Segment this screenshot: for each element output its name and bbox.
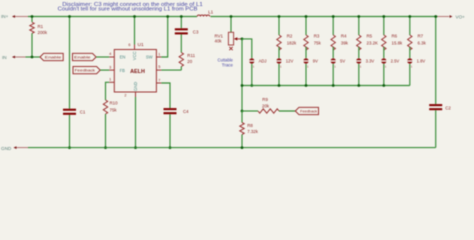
svg-text:SW: SW — [146, 55, 153, 60]
solder jumper JP1 ADJ — [249, 58, 267, 68]
svg-text:GND: GND — [133, 82, 138, 91]
resistor R6 — [382, 17, 403, 59]
wire VCC pin to rail — [134, 17, 136, 45]
svg-text:2.5V: 2.5V — [391, 58, 400, 63]
resistor R7 — [408, 17, 427, 59]
resistor R8 — [240, 111, 259, 148]
junction dot IN/R1 — [31, 56, 34, 59]
wire top rail right of L1 — [211, 16, 438, 18]
svg-text:Enable: Enable — [45, 55, 63, 60]
wire pin1 to R10 — [106, 82, 110, 100]
global label Feedback (to FB pin) — [73, 67, 100, 74]
svg-text:VCC: VCC — [132, 51, 137, 60]
svg-text:R1: R1 — [38, 24, 44, 29]
solder jumper JP5 3.3V — [356, 58, 375, 68]
resistor R11 — [179, 53, 195, 71]
wire C1 branch vertical — [69, 17, 71, 109]
junction dot SW rail — [166, 15, 169, 18]
svg-text:12V: 12V — [286, 58, 294, 63]
solder jumper JP3 9V — [303, 58, 318, 68]
junction dot VCC rail — [133, 15, 136, 18]
svg-text:4: 4 — [109, 52, 111, 56]
global label Feedback (at R9) — [295, 107, 318, 114]
inductor L1 — [197, 9, 213, 16]
wire C2 branch — [435, 17, 437, 105]
svg-text:75k: 75k — [110, 108, 118, 113]
solder jumper JP6 2.5V — [381, 58, 400, 68]
svg-text:Enable: Enable — [74, 55, 92, 60]
wire SW pin riser — [161, 17, 167, 58]
svg-text:R5: R5 — [367, 33, 373, 38]
svg-text:39k: 39k — [341, 41, 349, 46]
svg-text:3.3V: 3.3V — [366, 58, 375, 63]
svg-text:6.3k: 6.3k — [418, 41, 427, 46]
wire C3 to R11 — [180, 34, 182, 52]
junction dot RV1 rail — [230, 15, 233, 18]
svg-text:20: 20 — [187, 59, 192, 64]
solder jumper JP2 12V — [276, 58, 294, 68]
note Cuttable Trace — [218, 58, 234, 68]
svg-text:IN+: IN+ — [1, 14, 9, 19]
junction dot bus left — [241, 84, 244, 87]
resistor R10 — [103, 100, 118, 148]
svg-text:Couldn't tell for sure without: Couldn't tell for sure without unsolderi… — [58, 7, 199, 13]
svg-text:R9: R9 — [262, 97, 268, 102]
op-amp U1 AELH regulator — [109, 42, 161, 98]
svg-text:IN: IN — [2, 55, 7, 60]
capacitor C3 — [175, 28, 199, 34]
svg-text:200k: 200k — [38, 30, 48, 35]
svg-text:ADJ: ADJ — [259, 58, 267, 63]
capacitor C4 — [164, 108, 190, 114]
junction dot R10 bottom — [104, 146, 107, 149]
resistor R1 — [30, 17, 48, 58]
svg-text:R6: R6 — [392, 33, 398, 38]
wire wiper to ADJ column — [242, 39, 252, 58]
junction dot GND bottom — [134, 146, 137, 149]
svg-text:C4: C4 — [183, 109, 189, 114]
svg-text:R8: R8 — [247, 123, 253, 128]
svg-text:182k: 182k — [287, 41, 297, 46]
junction dot R8 bottom — [241, 146, 244, 149]
resistor R2 — [277, 17, 297, 59]
resistor R9 — [242, 97, 295, 113]
svg-text:3: 3 — [109, 65, 111, 69]
svg-text:R11: R11 — [187, 53, 195, 58]
wire wiper node down — [241, 39, 243, 111]
wire IN to Enable label — [26, 56, 41, 58]
resistor R4 — [331, 17, 349, 59]
svg-text:5V: 5V — [340, 58, 345, 63]
wire Feedback to FB pin — [100, 69, 109, 71]
svg-text:VO+: VO+ — [456, 14, 466, 19]
svg-text:2: 2 — [124, 94, 126, 98]
wire GND pin to bottom rail — [135, 97, 137, 148]
svg-text:C2: C2 — [445, 105, 451, 110]
wire C3 top — [180, 17, 182, 29]
svg-text:Trace: Trace — [222, 63, 234, 68]
capacitor C2 — [429, 104, 451, 110]
svg-text:R3: R3 — [314, 33, 320, 38]
junction dot R8/R9 node — [241, 110, 244, 113]
solder jumper JP4 5V — [330, 58, 345, 68]
svg-text:9V: 9V — [313, 58, 318, 63]
svg-text:6: 6 — [128, 43, 130, 47]
GND hierarchical label — [1, 146, 28, 151]
svg-text:R2: R2 — [287, 33, 293, 38]
svg-text:U1: U1 — [138, 42, 144, 48]
junction dot JP1 bus — [250, 84, 253, 87]
resistor R5 — [357, 17, 378, 59]
capacitor C1 — [63, 109, 86, 115]
global label Enable (left) — [40, 53, 63, 60]
svg-text:40k: 40k — [215, 38, 223, 43]
wire top rail left of L1 — [28, 16, 197, 18]
wire jumper bus — [242, 85, 410, 87]
svg-text:GND: GND — [1, 146, 12, 151]
junction dot C4 bottom — [169, 146, 172, 149]
wire pin5 to R11 — [161, 69, 181, 71]
svg-text:5: 5 — [158, 65, 160, 69]
hierarchical label IN — [2, 55, 26, 60]
svg-text:EN: EN — [120, 55, 126, 60]
pin stubs — [109, 56, 114, 58]
svg-text:7.32k: 7.32k — [247, 129, 259, 134]
svg-text:20k: 20k — [262, 103, 270, 108]
svg-text:C1: C1 — [80, 110, 86, 115]
junction dot R1 top rail — [31, 15, 34, 18]
svg-text:AELH: AELH — [130, 69, 145, 75]
junction dot C3 rail — [180, 15, 183, 18]
wire bottom rail — [28, 147, 436, 149]
solder jumper JP7 1.8V — [407, 58, 426, 68]
junction dot C1 top — [68, 15, 71, 18]
svg-text:23.2K: 23.2K — [367, 41, 379, 46]
svg-text:1: 1 — [109, 78, 111, 82]
potentiometer RV1 — [215, 17, 243, 51]
junction dot C1 bottom — [68, 146, 71, 149]
junction dot RV1 wiper — [241, 38, 244, 41]
wire pin7 to C4 — [161, 83, 170, 108]
svg-text:1: 1 — [158, 52, 160, 56]
svg-text:FB: FB — [120, 68, 126, 73]
svg-text:L1: L1 — [208, 9, 214, 14]
svg-text:7: 7 — [158, 78, 160, 82]
svg-text:Feedback: Feedback — [300, 109, 317, 114]
resistor R3 — [304, 17, 322, 59]
svg-text:C3: C3 — [193, 30, 199, 35]
svg-text:15.8k: 15.8k — [392, 41, 404, 46]
no-connect X — [229, 47, 232, 50]
svg-text:Feedback: Feedback — [75, 68, 95, 73]
wire Enable to EN pin — [96, 56, 109, 58]
hierarchical label IN+ — [1, 14, 28, 19]
hierarchical label VO+ — [438, 14, 466, 19]
global label Enable (to EN pin) — [73, 53, 97, 60]
svg-text:R10: R10 — [110, 101, 119, 106]
svg-text:75k: 75k — [314, 41, 322, 46]
svg-text:R7: R7 — [418, 33, 424, 38]
svg-text:R4: R4 — [341, 33, 347, 38]
svg-text:1.8V: 1.8V — [417, 58, 426, 63]
note disclaimer text — [58, 2, 203, 12]
